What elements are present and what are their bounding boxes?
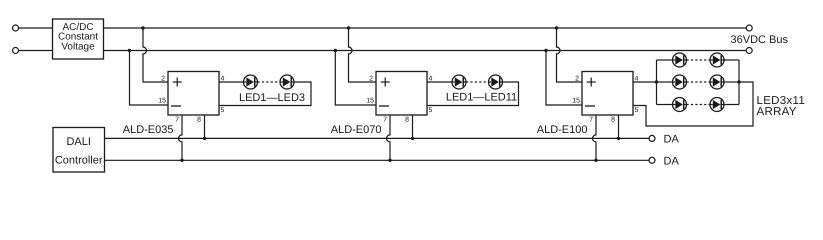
wire array left rail — [656, 60, 658, 105]
wire U3 pin 4 to LED array left rail — [633, 81, 657, 83]
wire 36VDC bus negative — [104, 50, 747, 52]
junction bus+ / driver U2 drop — [347, 26, 350, 29]
junction bus+ / driver U3 drop — [555, 26, 558, 29]
svg-text:8: 8 — [405, 117, 409, 124]
wire bus+ to U2 pin 2 (hops over bus-) — [349, 28, 377, 82]
wire U1 pin 7 to DA bottom (hops over DA top) — [179, 115, 182, 160]
svg-text:Voltage: Voltage — [61, 41, 95, 52]
LED D11 (LED11) — [489, 75, 503, 89]
LED array row 2 first — [673, 75, 687, 89]
junction bus- / driver U1 drop — [128, 49, 131, 52]
wire U1 pin 4 to LED1 — [219, 81, 244, 83]
driver U2 ALD-E070 — [366, 72, 432, 124]
svg-text:7: 7 — [383, 117, 387, 124]
wire array return to U3 pin 5 — [633, 82, 753, 126]
wire 36VDC bus positive — [104, 27, 747, 29]
svg-text:15: 15 — [572, 98, 580, 105]
LED array row 1 last — [710, 53, 724, 67]
terminal 36VDC bus positive — [746, 25, 752, 31]
terminal 36VDC bus negative — [746, 48, 752, 54]
svg-text:ALD-E100: ALD-E100 — [537, 124, 588, 136]
wire array row 2 left stub — [657, 81, 673, 83]
wire dashed LED1..LED3 — [258, 81, 281, 83]
wire dashed array row 2 — [687, 81, 711, 83]
svg-text:ARRAY: ARRAY — [757, 106, 797, 118]
wire array row 3 left stub — [657, 104, 673, 106]
wire bus+ to U1 pin 2 (hops over bus-) — [143, 28, 168, 82]
svg-text:2: 2 — [161, 76, 165, 83]
wire bus- to U1 pin 15 — [130, 51, 169, 106]
wire bus- to U3 pin 15 — [546, 51, 582, 106]
junction pin8 / DA top — [617, 137, 620, 140]
LED D1 (LED1, string 2) — [452, 75, 466, 89]
wire dashed array row 3 — [687, 104, 711, 106]
svg-text:8: 8 — [611, 117, 615, 124]
LED array row 3 first — [673, 98, 687, 112]
label LED3x11 ARRAY — [757, 95, 806, 118]
svg-text:ALD-E035: ALD-E035 — [123, 124, 174, 136]
svg-text:ALD-E070: ALD-E070 — [331, 124, 382, 136]
input terminal (AC line bottom) — [13, 48, 19, 54]
wire dashed LED1..LED11 — [466, 81, 489, 83]
terminal DA top — [649, 135, 655, 141]
wire U1 pin 8 to DA top — [204, 115, 206, 138]
junction array left rail — [655, 80, 658, 83]
svg-text:7: 7 — [589, 117, 593, 124]
junction pin7 / DA bottom — [594, 159, 597, 162]
wire array row 2 right stub — [724, 81, 739, 83]
svg-text:8: 8 — [197, 117, 201, 124]
AC/DC Constant Voltage supply PS1 — [53, 19, 104, 59]
svg-text:LED1—LED3: LED1—LED3 — [239, 92, 305, 104]
wire bus+ to U3 pin 2 (hops over bus-) — [557, 28, 583, 82]
svg-text:5: 5 — [221, 107, 225, 114]
junction pin8 / DA top — [203, 137, 206, 140]
svg-text:36VDC Bus: 36VDC Bus — [731, 34, 789, 46]
wire U2 pin 8 to DA top — [412, 115, 414, 138]
DALI Controller box — [53, 128, 105, 173]
svg-text:2: 2 — [369, 76, 373, 83]
svg-text:5: 5 — [635, 107, 639, 114]
junction pin7 / DA bottom — [180, 159, 183, 162]
wire LED11 return to U2 pin 5 — [427, 82, 519, 106]
wire array row 3 right stub — [724, 104, 739, 106]
svg-text:DALI: DALI — [66, 136, 90, 148]
wire DA bottom — [104, 159, 649, 161]
driver U1 ALD-E035 — [158, 72, 224, 124]
LED D3 (LED3) — [280, 75, 294, 89]
svg-text:Controller: Controller — [55, 155, 103, 167]
input terminal (AC line top) — [13, 25, 19, 31]
wire input bottom — [19, 50, 53, 52]
wire dashed array row 1 — [687, 59, 711, 61]
svg-text:15: 15 — [158, 98, 166, 105]
wire U3 pin 8 to DA top — [618, 115, 620, 138]
svg-text:LED1—LED11: LED1—LED11 — [446, 92, 517, 104]
wire input top — [19, 27, 53, 29]
junction bus+ / driver U1 drop — [141, 26, 144, 29]
LED array row 3 last — [710, 98, 724, 112]
LED array row 1 first — [673, 53, 687, 67]
svg-text:7: 7 — [175, 117, 179, 124]
wire array right rail — [738, 60, 740, 105]
wire U3 pin 7 to DA bottom (hops over DA top) — [593, 115, 597, 160]
junction bus- / driver U2 drop — [334, 49, 337, 52]
svg-text:DA: DA — [664, 134, 680, 146]
svg-text:5: 5 — [429, 107, 433, 114]
terminal DA bottom — [649, 157, 655, 163]
junction bus- / driver U3 drop — [544, 49, 547, 52]
driver U3 ALD-E100 — [572, 72, 638, 124]
svg-text:2: 2 — [575, 76, 579, 83]
svg-text:DA: DA — [664, 156, 680, 168]
LED D1 (LED1) — [244, 75, 258, 89]
svg-text:15: 15 — [366, 98, 374, 105]
wire array row 1 right stub — [724, 59, 739, 61]
junction array right rail — [737, 80, 740, 83]
wire DA top — [104, 137, 649, 139]
junction pin7 / DA bottom — [388, 159, 391, 162]
junction pin8 / DA top — [411, 137, 414, 140]
LED array row 2 last — [710, 75, 724, 89]
wire LED3 return to U1 pin 5 — [219, 82, 311, 106]
wire U2 pin 7 to DA bottom (hops over DA top) — [387, 115, 391, 160]
wire array row 1 left stub — [657, 59, 673, 61]
wire U2 pin 4 to LED1 — [427, 81, 452, 83]
wire bus- to U2 pin 15 — [335, 51, 376, 106]
